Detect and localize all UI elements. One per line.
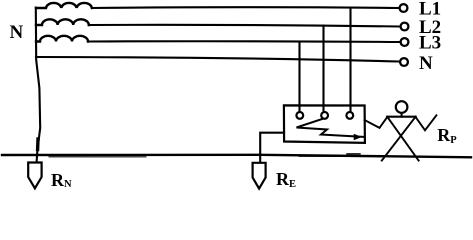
wire: star-point / neutral vertical conductor	[36, 8, 40, 163]
terminal L2	[401, 23, 409, 31]
appliance enclosure box	[284, 105, 365, 142]
person: left arm touching enclosure	[365, 117, 388, 128]
person: shoulders	[387, 116, 415, 118]
person: right arm raised	[415, 115, 436, 130]
ground line texture dash 3	[347, 153, 360, 155]
wire: L2 phase bus	[89, 25, 400, 27]
svg-text:N: N	[419, 53, 433, 74]
wire: drop from L2 to appliance pin 2	[322, 26, 324, 112]
terminal L3	[401, 38, 409, 46]
ground line (earth surface)	[2, 155, 471, 158]
terminal N	[400, 58, 408, 66]
appliance pin 3	[346, 112, 353, 119]
fault arrow (insulation fault to enclosure)	[297, 119, 365, 137]
wire: drop from L1 to appliance pin 3	[349, 8, 351, 111]
svg-text:L3: L3	[419, 32, 441, 53]
person: head	[396, 101, 408, 113]
fault arrow head	[354, 134, 362, 140]
svg-text:RE: RE	[276, 169, 296, 190]
terminal L1	[400, 4, 408, 12]
ground line texture dash 2	[299, 155, 345, 157]
wire: N neutral bus	[36, 57, 400, 62]
transformer winding L1	[36, 3, 92, 8]
appliance pin 1	[296, 112, 303, 119]
person: leg left-shoulder to right-foot	[387, 117, 418, 161]
wire: L3 phase bus	[88, 40, 400, 43]
earth electrode RN	[28, 163, 41, 189]
appliance pin 2	[321, 112, 328, 119]
earth electrode RE	[253, 163, 266, 189]
svg-text:RP: RP	[437, 125, 457, 146]
ground line texture dash 1	[49, 156, 146, 158]
wire: thick overlap blob near ground	[36, 139, 40, 150]
transformer winding L2	[36, 19, 89, 25]
transformer winding L3	[36, 36, 88, 42]
svg-text:N: N	[10, 22, 24, 43]
person: neck	[401, 114, 403, 117]
svg-text:RN: RN	[51, 170, 72, 190]
person: leg right-shoulder to left-foot	[382, 117, 416, 161]
wire: L1 phase bus	[92, 6, 400, 9]
wire: PE conductor from enclosure to earth electrode RE	[260, 133, 284, 163]
wire: drop from L3 to appliance pin 1	[298, 42, 300, 111]
